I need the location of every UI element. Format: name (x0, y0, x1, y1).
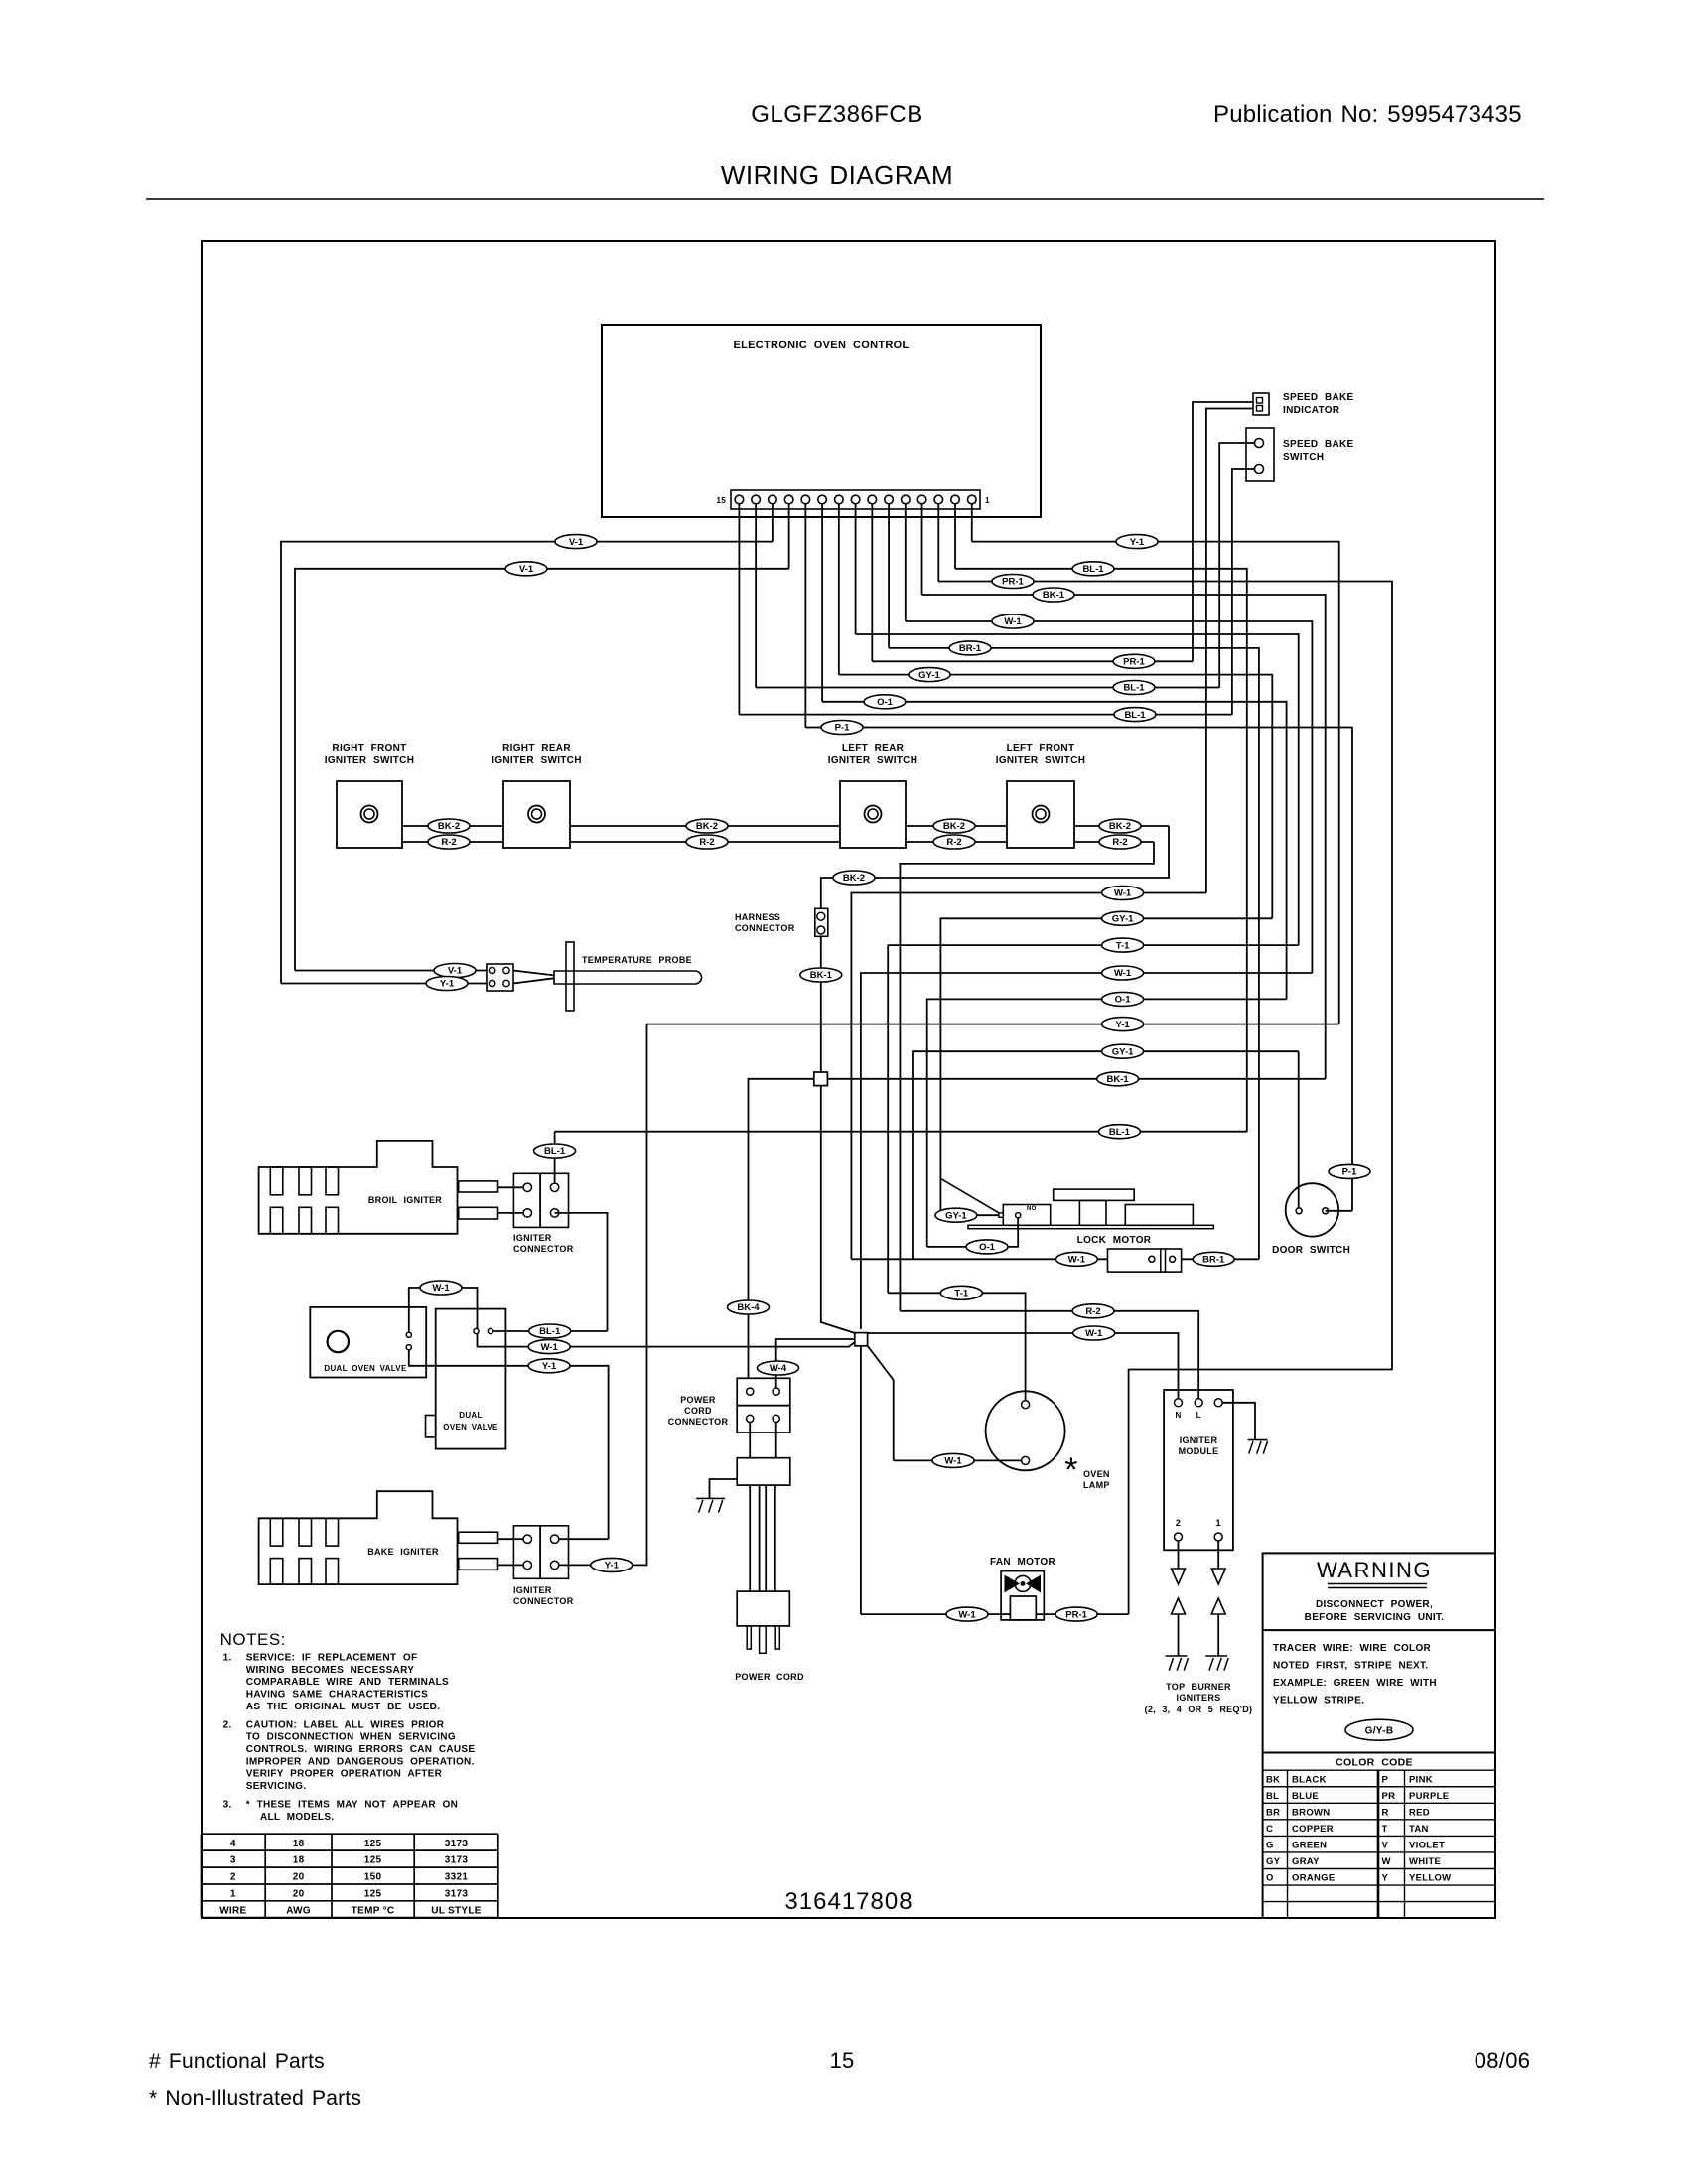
svg-text:BL-1: BL-1 (1109, 1127, 1131, 1138)
speed bake indicator (1253, 393, 1269, 415)
svg-text:FAN MOTOR: FAN MOTOR (990, 1557, 1055, 1568)
svg-text:BR-1: BR-1 (1202, 1255, 1225, 1266)
svg-text:BAKE IGNITER: BAKE IGNITER (367, 1547, 439, 1557)
wire BR-1 terminal 6 row (889, 648, 1259, 1259)
svg-text:20: 20 (293, 1872, 305, 1883)
svg-text:COLOR CODE: COLOR CODE (1336, 1757, 1413, 1769)
wire label R-2 (1072, 1304, 1114, 1318)
svg-text:BK-4: BK-4 (737, 1302, 760, 1313)
wire GY-1 terminal 9 row (839, 675, 1273, 919)
svg-text:TRACER WIRE: WIRE COLOR: TRACER WIRE: WIRE COLOR (1273, 1643, 1432, 1654)
fan motor (1001, 1571, 1044, 1620)
EOC terminal strip (731, 490, 980, 509)
igniter module (1164, 1390, 1233, 1550)
svg-text:RIGHT REAR: RIGHT REAR (502, 743, 571, 753)
svg-text:ELECTRONIC OVEN CONTROL: ELECTRONIC OVEN CONTROL (733, 340, 909, 351)
svg-text:R-2: R-2 (1085, 1306, 1100, 1317)
svg-text:YELLOW: YELLOW (1409, 1873, 1451, 1884)
wire T-1 terminal 8 row (856, 634, 1299, 945)
harness connector (815, 908, 828, 936)
wire BK-2 bus between igniter switches (402, 825, 1169, 827)
wire label BR-1 (949, 641, 991, 655)
power cord wires (750, 1485, 775, 1591)
svg-text:BR-1: BR-1 (959, 643, 982, 654)
lock switch (1108, 1249, 1182, 1272)
svg-text:CONTROLS. WIRING ERRORS CAN: CONTROLS. WIRING ERRORS CAN CAUSE (246, 1744, 476, 1755)
svg-text:W-1: W-1 (958, 1609, 976, 1620)
label LEFT FRONT IGNITER SWITCH (996, 743, 1085, 766)
wire V-1 terminal 13 row (281, 542, 773, 984)
wire label BK-4 (728, 1300, 770, 1314)
svg-text:N: N (1175, 1411, 1181, 1420)
svg-text:AS THE ORIGINAL MUST BE USED.: AS THE ORIGINAL MUST BE USED. (246, 1702, 440, 1712)
svg-text:1: 1 (1216, 1518, 1221, 1528)
warning divider 1 (1263, 1629, 1495, 1631)
svg-text:COPPER: COPPER (1292, 1824, 1334, 1835)
electronic oven control box U1 (602, 325, 1041, 517)
label DUAL OVEN VALVE 2 (443, 1411, 498, 1432)
svg-text:125: 125 (364, 1855, 382, 1866)
svg-text:UL STYLE: UL STYLE (431, 1905, 482, 1916)
wire W-1 junction B to igniter module N (868, 1333, 1179, 1399)
svg-text:L: L (1196, 1411, 1201, 1420)
wire label W-1 (528, 1340, 570, 1354)
terminal drop wires from EOC strip (739, 504, 971, 728)
svg-text:R-2: R-2 (946, 837, 961, 848)
wire label Y-1 (1102, 1018, 1144, 1031)
wire W-1 row to lock switch (851, 893, 1206, 1260)
svg-text:TOP BURNER: TOP BURNER (1166, 1682, 1231, 1692)
svg-text:WIRE: WIRE (219, 1905, 246, 1916)
label SPEED BAKE SWITCH (1283, 439, 1354, 463)
svg-text:CONNECTOR: CONNECTOR (513, 1596, 574, 1606)
svg-text:BL-1: BL-1 (1082, 564, 1104, 575)
svg-text:IGNITER: IGNITER (513, 1233, 552, 1243)
svg-text:15: 15 (829, 2048, 854, 2073)
wire label R-2 (933, 835, 975, 849)
svg-text:VIOLET: VIOLET (1409, 1841, 1445, 1851)
label POWER CORD CONNECTOR (668, 1395, 729, 1427)
svg-text:O-1: O-1 (979, 1242, 996, 1253)
wire BL-1 row broil connector to terminal 2 riser (555, 1131, 1247, 1133)
svg-text:BK-1: BK-1 (1043, 590, 1065, 601)
power cord connector (737, 1378, 790, 1433)
svg-text:HARNESS: HARNESS (735, 912, 780, 922)
svg-text:W-4: W-4 (770, 1363, 787, 1374)
svg-text:GY: GY (1266, 1856, 1281, 1867)
svg-text:BK-2: BK-2 (843, 873, 865, 884)
svg-text:W: W (1382, 1856, 1391, 1867)
svg-text:P-1: P-1 (835, 723, 851, 734)
svg-text:W-1: W-1 (541, 1342, 559, 1353)
svg-text:LAMP: LAMP (1083, 1480, 1110, 1490)
svg-text:G/Y-B: G/Y-B (1365, 1726, 1394, 1737)
power cord plug block (737, 1591, 789, 1626)
svg-text:4: 4 (230, 1839, 236, 1849)
label SPEED BAKE INDICATOR (1283, 392, 1354, 416)
svg-text:08/06: 08/06 (1475, 2048, 1531, 2073)
svg-text:OVEN VALVE: OVEN VALVE (443, 1423, 498, 1432)
note 1 (223, 1653, 449, 1712)
label RIGHT REAR IGNITER SWITCH (492, 743, 581, 766)
svg-text:CAUTION: LABEL ALL WIRES PRI: CAUTION: LABEL ALL WIRES PRIOR (246, 1719, 445, 1730)
svg-text:BL-1: BL-1 (539, 1326, 561, 1337)
chassis ground (power cord) (696, 1479, 737, 1513)
svg-text:G: G (1266, 1841, 1274, 1851)
svg-text:LOCK MOTOR: LOCK MOTOR (1077, 1235, 1152, 1246)
dual oven valve 1 (310, 1307, 426, 1378)
svg-text:GREEN: GREEN (1292, 1841, 1327, 1851)
svg-text:C: C (1266, 1824, 1273, 1835)
svg-text:Y-1: Y-1 (542, 1361, 557, 1372)
svg-text:1: 1 (230, 1889, 236, 1900)
wire BL-1 broil connector to valve (555, 1213, 608, 1331)
main diagram border (202, 241, 1495, 1918)
svg-text:COMPARABLE WIRE AND TERMINALS: COMPARABLE WIRE AND TERMINALS (246, 1677, 449, 1688)
svg-text:TO DISCONNECTION WHEN SERVICIN: TO DISCONNECTION WHEN SERVICING (246, 1732, 456, 1743)
temperature probe body (554, 942, 702, 1011)
svg-text:Y-1: Y-1 (1130, 537, 1145, 548)
wire V-1 terminal 12 row (295, 569, 789, 971)
svg-text:BEFORE SERVICING UNIT.: BEFORE SERVICING UNIT. (1305, 1612, 1445, 1623)
svg-text:1.: 1. (223, 1653, 232, 1664)
svg-text:T-1: T-1 (1116, 940, 1130, 951)
wire label BK-1 (1033, 588, 1074, 602)
wire Y-1 terminal 1 row (972, 542, 1339, 1024)
wire label BL-1 (1072, 562, 1114, 576)
svg-text:V-1: V-1 (569, 537, 584, 548)
svg-text:Y: Y (1382, 1873, 1389, 1884)
wire V-1 to probe block (295, 970, 487, 972)
svg-text:* THESE ITEMS MAY NOT APPEAR O: * THESE ITEMS MAY NOT APPEAR ON (246, 1800, 458, 1811)
svg-text:IMPROPER AND DANGEROUS OPERATI: IMPROPER AND DANGEROUS OPERATION. (246, 1756, 475, 1767)
svg-text:SPEED BAKE: SPEED BAKE (1283, 392, 1354, 403)
wire label BK-2 (428, 819, 470, 833)
wire W-1 valve1 to valve2 (409, 1288, 478, 1332)
svg-text:NO: NO (1027, 1206, 1037, 1212)
wire label GY-1 (935, 1208, 977, 1222)
wire label GY-1 (909, 668, 950, 682)
dual oven valve 2 (426, 1309, 506, 1449)
svg-text:18: 18 (293, 1839, 305, 1849)
right front igniter switch (337, 781, 402, 848)
bake igniter lead wires (497, 1539, 523, 1565)
wire label W-1 (1102, 966, 1144, 980)
svg-text:PINK: PINK (1409, 1774, 1433, 1785)
wire label W-1 (946, 1607, 988, 1621)
svg-text:RED: RED (1409, 1807, 1430, 1818)
wire label BK-2 (1099, 819, 1141, 833)
igniter module earth pin wire (1222, 1403, 1255, 1440)
junction B to fan motor wire (860, 1346, 862, 1614)
svg-text:20: 20 (293, 1889, 305, 1900)
svg-text:O-1: O-1 (877, 697, 894, 708)
svg-text:TEMPERATURE PROBE: TEMPERATURE PROBE (582, 955, 692, 965)
svg-text:GY-1: GY-1 (1112, 1046, 1134, 1057)
left rear igniter switch (840, 781, 906, 848)
wire label P-1 (1329, 1164, 1370, 1178)
wire W-1 into lock switch (851, 1258, 1107, 1260)
svg-text:SPEED BAKE: SPEED BAKE (1283, 439, 1354, 450)
svg-text:PR: PR (1382, 1791, 1396, 1802)
svg-text:IGNITER SWITCH: IGNITER SWITCH (996, 755, 1085, 766)
svg-text:2: 2 (1176, 1518, 1181, 1528)
wire label BK-1 (1097, 1072, 1139, 1086)
svg-text:3321: 3321 (445, 1872, 469, 1883)
svg-text:R: R (1382, 1807, 1389, 1818)
power cord prongs (747, 1626, 779, 1653)
wire W-1 to fan motor (861, 1613, 1011, 1615)
svg-text:3.: 3. (223, 1800, 232, 1811)
svg-text:T-1: T-1 (954, 1289, 968, 1299)
svg-text:OVEN: OVEN (1083, 1469, 1110, 1479)
wire R-2 bus between igniter switches (402, 841, 1154, 843)
wire label O-1 (966, 1240, 1008, 1254)
wire BL-1 broil connector riser (554, 1132, 556, 1183)
wire label W-1 (1055, 1252, 1097, 1266)
wire Y-1 row to bake igniter connector (647, 1024, 1339, 1567)
wire W-1 terminal 5 row (906, 621, 1313, 973)
wire label V-1 (434, 964, 476, 978)
svg-text:IGNITER: IGNITER (1180, 1435, 1218, 1445)
svg-text:BL-1: BL-1 (544, 1146, 566, 1157)
wire label R-2 (1099, 835, 1141, 849)
wire Y-1 bake connector (559, 1564, 647, 1566)
wire label GY-1 (1102, 911, 1144, 925)
label IGNITER MODULE (1179, 1435, 1219, 1456)
svg-text:3: 3 (230, 1855, 236, 1866)
svg-text:SERVICE: IF REPLACEMENT OF: SERVICE: IF REPLACEMENT OF (246, 1653, 418, 1664)
svg-text:R-2: R-2 (1112, 837, 1127, 848)
svg-text:W-1: W-1 (1085, 1328, 1103, 1339)
left front igniter switch (1007, 781, 1074, 848)
svg-text:O: O (1266, 1873, 1274, 1884)
svg-text:PR-1: PR-1 (1123, 657, 1145, 668)
svg-text:2.: 2. (223, 1719, 232, 1730)
svg-text:V-1: V-1 (519, 564, 534, 575)
wire P-1 terminal 11 row (805, 728, 1352, 1211)
svg-text:DUAL: DUAL (459, 1411, 482, 1420)
wire label R-2 (428, 835, 470, 849)
label LEFT REAR IGNITER SWITCH (828, 743, 917, 766)
wire label BK-1 (800, 968, 842, 982)
svg-text:316417808: 316417808 (784, 1888, 913, 1915)
wire label R-2 (686, 835, 728, 849)
junction block A (814, 1072, 828, 1086)
svg-text:BLACK: BLACK (1292, 1774, 1327, 1785)
top burner igniter lead 1 (1166, 1598, 1189, 1671)
svg-text:RIGHT FRONT: RIGHT FRONT (332, 743, 406, 753)
svg-text:T: T (1382, 1824, 1388, 1835)
svg-text:150: 150 (364, 1872, 382, 1883)
temperature probe terminal block (487, 964, 513, 991)
junction block B (855, 1333, 868, 1346)
oven lamp (986, 1391, 1065, 1470)
svg-text:BK-2: BK-2 (438, 821, 460, 832)
svg-text:(2, 3, 4 OR 5 REQ'D): (2, 3, 4 OR 5 REQ'D) (1145, 1705, 1253, 1714)
wire GY-1 row to door switch riser (913, 1051, 1299, 1259)
tracer wire text (1273, 1643, 1437, 1706)
wire label O-1 (864, 695, 906, 709)
svg-text:POWER CORD: POWER CORD (735, 1672, 804, 1682)
wire GY-1 into lock motor (940, 1214, 999, 1216)
svg-text:EXAMPLE: GREEN WIRE WITH: EXAMPLE: GREEN WIRE WITH (1273, 1678, 1437, 1689)
svg-text:W-1: W-1 (432, 1283, 450, 1294)
svg-text:BK: BK (1266, 1774, 1280, 1785)
wire O-1 terminal 10 row (822, 702, 1287, 1000)
wire label BL-1 (534, 1144, 576, 1158)
wire BK-1 harness to junction (820, 936, 822, 1072)
door switch (1286, 1183, 1338, 1236)
note 2 (223, 1719, 476, 1792)
wire label BR-1 (1193, 1252, 1234, 1266)
svg-text:NOTED FIRST, STRIPE NEXT.: NOTED FIRST, STRIPE NEXT. (1273, 1661, 1428, 1672)
svg-text:BL: BL (1266, 1791, 1279, 1802)
svg-text:CORD: CORD (684, 1406, 712, 1416)
svg-text:W-1: W-1 (944, 1456, 962, 1467)
wire P-1 door switch right pin (1326, 1210, 1352, 1212)
wire label P-1 (821, 721, 863, 735)
svg-text:1: 1 (985, 496, 990, 505)
wire label BK-2 (933, 819, 975, 833)
svg-text:LEFT REAR: LEFT REAR (842, 743, 905, 753)
label TOP BURNER IGNITERS (1145, 1682, 1253, 1714)
svg-text:O-1: O-1 (1115, 995, 1132, 1006)
wire label Y-1 (591, 1558, 633, 1571)
wire label PR-1 (992, 575, 1034, 589)
wire label PR-1 (1055, 1607, 1097, 1621)
wire label example G/Y-B (1345, 1719, 1413, 1740)
svg-text:3173: 3173 (445, 1889, 469, 1900)
wire O-1 lock motor pin (927, 1218, 1018, 1247)
svg-text:GLGFZ386FCB: GLGFZ386FCB (751, 101, 923, 128)
wire T-1 to oven lamp top (888, 1293, 1025, 1400)
wire label T-1 (940, 1286, 982, 1299)
warning divider 2 (1263, 1752, 1495, 1754)
wire label Y-1 (528, 1359, 570, 1373)
svg-text:IGNITERS: IGNITERS (1177, 1693, 1221, 1703)
svg-text:BROWN: BROWN (1292, 1807, 1330, 1818)
color code table (1263, 1770, 1495, 1917)
svg-text:Y-1: Y-1 (605, 1561, 620, 1571)
svg-text:Y-1: Y-1 (440, 979, 455, 990)
svg-text:BL-1: BL-1 (1123, 683, 1145, 694)
svg-text:TEMP °C: TEMP °C (352, 1905, 395, 1916)
svg-text:18: 18 (293, 1855, 305, 1866)
svg-text:BK-1: BK-1 (1107, 1074, 1130, 1085)
svg-text:GRAY: GRAY (1292, 1856, 1320, 1867)
wire BK-4 junction to power cord connector (749, 1079, 814, 1379)
title underline rule (146, 198, 1544, 200)
broil igniter lead wires (497, 1187, 523, 1213)
wire label W-1 (420, 1281, 462, 1295)
svg-text:INDICATOR: INDICATOR (1283, 405, 1340, 416)
wire BK-1 terminal 4 row (922, 595, 1326, 1079)
label RIGHT FRONT IGNITER SWITCH (325, 743, 414, 766)
terminal circles 15..1 (735, 495, 976, 504)
svg-text:LEFT FRONT: LEFT FRONT (1007, 743, 1075, 753)
svg-text:V: V (1382, 1841, 1389, 1851)
wire label Y-1 (426, 977, 468, 991)
svg-text:PR-1: PR-1 (1065, 1609, 1087, 1620)
svg-text:IGNITER SWITCH: IGNITER SWITCH (828, 755, 917, 766)
svg-text:BR: BR (1266, 1807, 1280, 1818)
svg-text:POWER: POWER (680, 1395, 716, 1405)
probe lead wires (513, 971, 554, 984)
wire label W-1 (1102, 887, 1144, 900)
svg-text:DISCONNECT POWER,: DISCONNECT POWER, (1316, 1599, 1433, 1610)
wire BK-1 junction to terminal 4 riser (827, 1078, 1325, 1080)
wire BL-1 valve2 pin (493, 1330, 608, 1332)
svg-text:AWG: AWG (286, 1905, 311, 1916)
svg-text:R-2: R-2 (441, 837, 456, 848)
svg-text:SWITCH: SWITCH (1283, 452, 1324, 463)
svg-text:W-1: W-1 (1114, 968, 1132, 979)
svg-text:MODULE: MODULE (1179, 1446, 1219, 1456)
svg-text:Y-1: Y-1 (1115, 1020, 1130, 1030)
wire label BK-2 (686, 819, 728, 833)
lock motor assembly (941, 1179, 1213, 1229)
igniter module output 2 arrow (1211, 1541, 1225, 1584)
svg-text:IGNITER SWITCH: IGNITER SWITCH (492, 755, 581, 766)
chassis ground (igniter module) (1248, 1440, 1268, 1454)
wire BL-1 terminal 2 row (955, 569, 1247, 1133)
bake igniter (259, 1491, 498, 1584)
bake igniter connector (513, 1526, 568, 1579)
power cord mid block (737, 1458, 790, 1485)
svg-text:R-2: R-2 (699, 837, 714, 848)
warning box (1263, 1553, 1495, 1918)
wire O-1 row to lock motor pin (927, 999, 1287, 1247)
svg-text:NOTES:: NOTES: (220, 1630, 286, 1649)
wire label O-1 (1102, 992, 1144, 1006)
svg-text:WHITE: WHITE (1409, 1856, 1441, 1867)
svg-text:2: 2 (230, 1872, 236, 1883)
wire BK junction A to junction B (821, 1086, 855, 1333)
wire BL-1 terminal 14 row (756, 687, 1219, 689)
svg-text:W-1: W-1 (1068, 1255, 1086, 1266)
wire BL-1 speed bake switch pin2 (1232, 469, 1255, 715)
wire PR-1 speed bake indicator pin1 (1193, 402, 1253, 661)
svg-text:P-1: P-1 (1342, 1167, 1358, 1178)
wire W-1 row to junction B / fan motor (861, 973, 1313, 1329)
wire bake connector to Y-1 riser (559, 1538, 609, 1540)
wire label Y-1 (1116, 535, 1158, 549)
svg-text:*: * (1064, 1451, 1078, 1489)
wire label BL-1 (1113, 681, 1155, 695)
wire label W-1 (932, 1453, 974, 1467)
svg-text:PURPLE: PURPLE (1409, 1791, 1449, 1802)
label OVEN LAMP (1083, 1469, 1110, 1490)
svg-text:HAVING SAME CHARACTERISTICS: HAVING SAME CHARACTERISTICS (246, 1690, 428, 1701)
warning underline (1328, 1584, 1427, 1588)
note 3 (223, 1800, 458, 1823)
wire W-1 speed bake indicator pin2 (1206, 409, 1253, 893)
svg-text:GY-1: GY-1 (1112, 914, 1134, 925)
svg-text:PR-1: PR-1 (1002, 577, 1024, 588)
wire R-2 down-bus to igniter module row (900, 842, 1154, 1311)
svg-text:ALL MODELS.: ALL MODELS. (260, 1812, 334, 1823)
svg-text:125: 125 (364, 1889, 382, 1900)
svg-text:Publication No: 5995473435: Publication No: 5995473435 (1213, 101, 1522, 128)
speed bake switch (1246, 428, 1274, 481)
wire PR-1 fan motor (1036, 1613, 1128, 1615)
label IGNITER CONNECTOR (broil) (513, 1233, 574, 1254)
svg-text:P: P (1382, 1774, 1389, 1785)
wire BL-1 speed bake switch pin1 (1219, 443, 1254, 688)
wire label V-1 (505, 562, 547, 576)
svg-text:BROIL IGNITER: BROIL IGNITER (368, 1195, 442, 1205)
